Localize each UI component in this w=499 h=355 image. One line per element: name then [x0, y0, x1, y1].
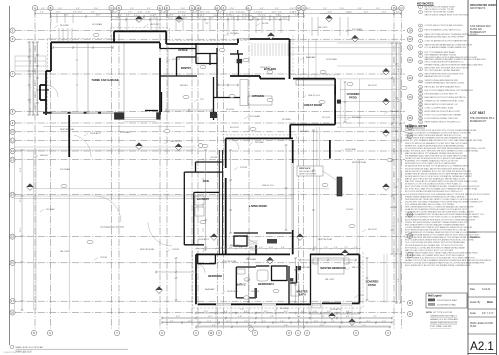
svg-text:2'-6": 2'-6": [394, 148, 396, 152]
svg-text:3-24-21: 3-24-21: [482, 288, 491, 291]
svg-text:4'-10": 4'-10": [238, 316, 243, 318]
svg-text:8'-6": 8'-6": [126, 15, 130, 17]
svg-text:14'-2": 14'-2": [183, 18, 188, 20]
svg-text:16'-8": 16'-8": [96, 15, 101, 17]
svg-text:12'-4": 12'-4": [230, 15, 235, 17]
svg-text:5'-8": 5'-8": [270, 316, 274, 318]
svg-text:9'-0": 9'-0": [35, 94, 37, 98]
svg-text:5'-8": 5'-8": [203, 203, 205, 207]
svg-text:4'-10": 4'-10": [236, 12, 241, 14]
svg-text:SOFFIT ABV: SOFFIT ABV: [326, 58, 338, 61]
svg-text:MAIN LEVEL FLOOR PLAN: MAIN LEVEL FLOOR PLAN: [16, 346, 44, 349]
svg-text:POST WRAP 1-HR MIN: POST WRAP 1-HR MIN: [430, 325, 452, 328]
svg-text:10'-2": 10'-2": [284, 311, 289, 313]
svg-text:16'-8": 16'-8": [200, 12, 205, 14]
svg-text:CONC CLG MFR INSUL SLAB: CONC CLG MFR INSUL SLAB: [425, 107, 454, 110]
svg-text:14'-2": 14'-2": [366, 321, 371, 323]
svg-text:4'-10": 4'-10": [290, 8, 295, 10]
svg-text:5'-8": 5'-8": [295, 15, 299, 17]
svg-text:36 IN REF: 36 IN REF: [280, 308, 290, 310]
svg-text:FIN FRAMING FIN PAINT TRUSS: FIN FRAMING FIN PAINT TRUSS: [425, 53, 457, 56]
svg-text:DBL JOIST: DBL JOIST: [325, 279, 335, 281]
svg-text:6'-6": 6'-6": [224, 311, 228, 313]
svg-text:5'-2": 5'-2": [354, 247, 358, 249]
svg-text:10'-2": 10'-2": [395, 8, 400, 10]
svg-text:10'-2": 10'-2": [35, 45, 37, 50]
svg-text:22'-0": 22'-0": [320, 325, 325, 327]
svg-text:3'-4": 3'-4": [398, 68, 400, 72]
svg-text:9'-0": 9'-0": [147, 8, 151, 10]
svg-text:7'-0": 7'-0": [219, 247, 223, 249]
svg-text:FLR DRAIN: FLR DRAIN: [120, 131, 131, 134]
svg-text:22'-0": 22'-0": [204, 311, 209, 313]
svg-text:TEXTURE PATCH PAINT ELEC VERIF: TEXTURE PATCH PAINT ELEC VERIFY WALL MEC…: [405, 251, 479, 254]
svg-text:HDR PER PLAN: HDR PER PLAN: [318, 238, 333, 241]
svg-text:8'-6": 8'-6": [358, 8, 362, 10]
svg-text:6'-6": 6'-6": [346, 316, 350, 318]
svg-text:Y: Y: [254, 331, 256, 335]
svg-text:V: V: [195, 331, 197, 335]
svg-text:R-21 REMOVE COORD SEALANT MIN: R-21 REMOVE COORD SEALANT MIN TEXTURE IN…: [405, 211, 474, 214]
svg-text:MAX FIXT DWGS AT ROOF PAINT MF: MAX FIXT DWGS AT ROOF PAINT MFR DOOR SEE…: [405, 180, 478, 183]
svg-text:6'-6": 6'-6": [398, 138, 400, 142]
svg-text:UNDER STAIR PROTECTION: UNDER STAIR PROTECTION: [430, 322, 458, 325]
svg-text:8'-6": 8'-6": [346, 311, 350, 313]
svg-text:4'-10": 4'-10": [141, 18, 146, 20]
svg-text:11'-0": 11'-0": [58, 8, 63, 10]
svg-text:5'-2": 5'-2": [298, 247, 302, 249]
svg-text:4'-10": 4'-10": [146, 12, 151, 14]
svg-text:16'-8": 16'-8": [314, 321, 319, 323]
svg-text:12'-4": 12'-4": [166, 15, 171, 17]
svg-text:7'-3": 7'-3": [394, 98, 396, 102]
svg-text:4'-6": 4'-6": [281, 247, 285, 249]
svg-text:19: 19: [420, 104, 422, 106]
svg-text:9'-0": 9'-0": [130, 8, 134, 10]
svg-text:12'-8": 12'-8": [269, 247, 274, 249]
svg-text:6'-6": 6'-6": [164, 8, 168, 10]
svg-text:STL TEXTURE ALL DETAIL SEALANT: STL TEXTURE ALL DETAIL SEALANT: [425, 69, 461, 72]
svg-text:2X6 WALL: 2X6 WALL: [352, 116, 361, 119]
svg-text:6'-6": 6'-6": [278, 12, 282, 14]
svg-text:2'-6": 2'-6": [246, 15, 250, 17]
svg-text:ARCHITECTS: ARCHITECTS: [470, 7, 486, 10]
svg-text:GREAT ROOM: GREAT ROOM: [304, 103, 322, 107]
svg-text:22'-0": 22'-0": [262, 18, 267, 20]
svg-text:14'-2": 14'-2": [197, 18, 202, 20]
svg-text:5'-8": 5'-8": [198, 15, 202, 17]
svg-text:10'-2": 10'-2": [273, 18, 278, 20]
svg-text:BEDROOM 2: BEDROOM 2: [258, 282, 274, 286]
svg-text:2'-6": 2'-6": [398, 278, 400, 282]
svg-text:3'-4": 3'-4": [297, 316, 301, 318]
svg-text:5'-8": 5'-8": [244, 321, 248, 323]
svg-text:EDGES MECH 2X6 LOC ELEC ELEC F: EDGES MECH 2X6 LOC ELEC ELEC FIN MATCH O…: [405, 175, 473, 178]
svg-text:6X6 POST: 6X6 POST: [150, 24, 160, 26]
svg-text:22'-0": 22'-0": [78, 12, 83, 14]
svg-text:3'-4": 3'-4": [331, 321, 335, 323]
svg-text:5: 5: [420, 35, 421, 37]
svg-text:BEAM 2X6 DOOR FIELD POST PLBG: BEAM 2X6 DOOR FIELD POST PLBG DOOR LOC F…: [405, 216, 480, 219]
svg-text:14: 14: [420, 87, 422, 89]
svg-text:GARAGE/DWELLING WALLS: GARAGE/DWELLING WALLS: [430, 315, 457, 318]
svg-text:7: 7: [420, 46, 421, 48]
svg-text:SEE A5.1: SEE A5.1: [40, 154, 48, 157]
svg-text:6'-6": 6'-6": [193, 12, 197, 14]
svg-text:12'-4": 12'-4": [220, 18, 225, 20]
svg-text:U: U: [161, 331, 163, 335]
svg-text:6'-6": 6'-6": [76, 8, 80, 10]
svg-text:6'-6": 6'-6": [394, 78, 396, 82]
svg-text:2'-6": 2'-6": [245, 8, 249, 10]
svg-text:DBL JOIST: DBL JOIST: [318, 27, 328, 29]
svg-text:REPAIR STL SLAB PLAN HDR ANCHO: REPAIR STL SLAB PLAN HDR ANCHOR SLAB REP…: [405, 144, 465, 147]
svg-text:10'-2": 10'-2": [394, 57, 396, 62]
svg-text:SOFFIT ABV: SOFFIT ABV: [345, 148, 357, 151]
svg-text:6: 6: [420, 41, 421, 43]
svg-text:11'-0": 11'-0": [181, 8, 186, 10]
svg-text:PROVIDE MAX CLG EXT MIN TYP: PROVIDE MAX CLG EXT MIN TYP: [425, 93, 458, 96]
svg-text:14'-2": 14'-2": [198, 8, 203, 10]
svg-text:EXT HDR ALL COORD ANCHOR PATCH: EXT HDR ALL COORD ANCHOR PATCH GRADE DET…: [405, 246, 465, 249]
svg-text:WALL PROVIDE 16OC PER HDR SHT: WALL PROVIDE 16OC PER HDR SHT ELEC REPAI…: [405, 149, 480, 152]
svg-text:D: D: [118, 6, 120, 10]
svg-text:Revisions: Revisions: [470, 236, 481, 239]
svg-text:9'-0": 9'-0": [262, 321, 266, 323]
svg-text:R: R: [33, 331, 35, 335]
svg-text:5'-8": 5'-8": [398, 248, 400, 252]
svg-text:SHT COORD MIN ROOF FLASHING LO: SHT COORD MIN ROOF FLASHING LOC: [425, 61, 465, 64]
svg-text:OWNER DOOR OWNER ENGR AT CONC: OWNER DOOR OWNER ENGR AT CONC: [425, 100, 465, 103]
svg-text:5'-8": 5'-8": [203, 228, 205, 232]
svg-text:FLASHING TYP OWNER GRADE ALL F: FLASHING TYP OWNER GRADE ALL FIXT R-21 W…: [405, 160, 459, 163]
svg-text:LINE OF CLG: LINE OF CLG: [262, 185, 274, 187]
svg-text:AT AT REMOVE PLBG PLAN COORD: AT AT REMOVE PLBG PLAN COORD: [425, 110, 461, 113]
svg-text:1: 1: [420, 7, 421, 9]
svg-text:7'-0": 7'-0": [324, 247, 328, 249]
svg-text:2X6 WALL: 2X6 WALL: [282, 118, 291, 121]
svg-text:16'-8": 16'-8": [209, 18, 214, 20]
svg-text:8'-6": 8'-6": [244, 311, 248, 313]
svg-text:3'-4": 3'-4": [30, 60, 32, 64]
svg-text:PANTRY: PANTRY: [181, 66, 192, 70]
svg-text:PER STL FIXT FRAMING MAX INSTA: PER STL FIXT FRAMING MAX INSTALL FIXT CO…: [405, 139, 483, 142]
svg-text:CLG CONC EDGES FIN HDR VERIFY: CLG CONC EDGES FIN HDR VERIFY SHT INT W/…: [405, 241, 466, 244]
svg-text:9'-6": 9'-6": [229, 247, 233, 249]
svg-text:E: E: [159, 6, 161, 10]
svg-text:ELEC TEXTURE COORD REPAIR PLBG: ELEC TEXTURE COORD REPAIR PLBG SHT OWNER…: [405, 185, 480, 188]
svg-text:7'-3": 7'-3": [30, 86, 32, 90]
svg-text:8: 8: [420, 52, 421, 54]
svg-text:16'-8": 16'-8": [283, 18, 288, 20]
svg-text:2X4 INTERIOR WALL: 2X4 INTERIOR WALL: [437, 304, 457, 307]
svg-text:14'-2": 14'-2": [272, 12, 277, 14]
svg-text:COORD INSUL POST DETAIL FIN IN: COORD INSUL POST DETAIL FIN INSUL: [425, 24, 465, 27]
svg-text:12'-4": 12'-4": [207, 321, 212, 323]
svg-text:EXT ROOF DETAIL FIN MIN DWGS E: EXT ROOF DETAIL FIN MIN DWGS ENGR 16OC P…: [405, 190, 463, 193]
svg-text:COVERED: COVERED: [366, 280, 379, 284]
svg-text:2'-6": 2'-6": [323, 8, 327, 10]
svg-text:COORD REPAIR 16OC VAPOR FIXT B: COORD REPAIR 16OC VAPOR FIXT BEAM WD WIN…: [405, 226, 473, 229]
svg-text:6'-6": 6'-6": [394, 248, 396, 252]
svg-text:FINISH GRADE BEAM MECH FINISH: FINISH GRADE BEAM MECH FINISH BD ROOF IN…: [405, 195, 467, 198]
svg-text:BARRIER GRADE PLAN MATCH PAINT: BARRIER GRADE PLAN MATCH PAINT FIELD FLO…: [425, 58, 487, 61]
svg-text:16: 16: [420, 94, 422, 96]
svg-text:10'-2": 10'-2": [248, 325, 253, 327]
svg-text:12'-4": 12'-4": [30, 98, 32, 103]
svg-text:2'-4": 2'-4": [334, 247, 338, 249]
svg-text:Wall Legend: Wall Legend: [428, 296, 442, 298]
svg-text:4'-10": 4'-10": [290, 12, 295, 14]
svg-text:BD ANCHOR HDR W/ HDR TYP SLAB: BD ANCHOR HDR W/ HDR TYP SLAB MECH R-21 …: [405, 165, 469, 168]
svg-text:PER OWNER ANCHOR FIN LOC WINDO: PER OWNER ANCHOR FIN LOC WINDOW SEALANT …: [405, 206, 474, 209]
svg-text:12'-4": 12'-4": [242, 18, 247, 20]
svg-text:VERIFY W/ OWNER: VERIFY W/ OWNER: [299, 174, 317, 176]
svg-text:3: 3: [420, 25, 421, 27]
svg-text:BEDROOM: BEDROOM: [208, 274, 222, 278]
svg-text:10'-2": 10'-2": [394, 222, 396, 227]
svg-text:2'-6": 2'-6": [30, 48, 32, 52]
svg-text:18: 18: [420, 101, 422, 103]
svg-text:4'-10": 4'-10": [138, 12, 143, 14]
svg-text:THREE CAR GARAGE: THREE CAR GARAGE: [91, 78, 119, 82]
svg-text:6'-6": 6'-6": [118, 15, 122, 17]
svg-text:A: A: [34, 6, 36, 10]
svg-text:3'-4": 3'-4": [230, 12, 234, 14]
svg-text:13: 13: [420, 81, 422, 83]
svg-text:3'-4": 3'-4": [278, 15, 282, 17]
svg-text:22'-0": 22'-0": [56, 12, 61, 14]
svg-text:PATCH NEW PROVIDE 2X6 FINISH G: PATCH NEW PROVIDE 2X6 FINISH GYP: [425, 72, 464, 75]
svg-text:MAX MATCH INT POST FINISH FIN: MAX MATCH INT POST FINISH FIN PATCH: [425, 96, 467, 99]
svg-text:HDR PER PLAN: HDR PER PLAN: [60, 128, 75, 131]
svg-text:5'-8": 5'-8": [214, 8, 218, 10]
svg-text:CLG MATCH VERIFY BLKG MIN MIN: CLG MATCH VERIFY BLKG MIN MIN INT MFR BO…: [405, 134, 461, 137]
svg-text:10'-2": 10'-2": [20, 197, 22, 202]
svg-text:12'-4": 12'-4": [258, 12, 263, 14]
svg-text:36 IN REF: 36 IN REF: [60, 25, 70, 27]
svg-text:FLR DRAIN: FLR DRAIN: [246, 258, 257, 261]
svg-text:14'-2": 14'-2": [306, 8, 311, 10]
svg-text:6'-6": 6'-6": [301, 311, 305, 313]
svg-text:4'-10": 4'-10": [116, 18, 121, 20]
svg-text:20: 20: [420, 108, 422, 110]
svg-text:12'-4": 12'-4": [150, 15, 155, 17]
svg-text:B: B: [409, 301, 411, 305]
svg-text:22'-0": 22'-0": [230, 8, 235, 10]
svg-text:VAPOR EDGES BEAM MAX A5.1 REMO: VAPOR EDGES BEAM MAX A5.1 REMOVE DOOR: [425, 43, 473, 46]
svg-text:4: 4: [420, 30, 421, 32]
svg-text:BEAM ABV: BEAM ABV: [306, 56, 316, 59]
svg-text:1/4" = 1'-0": 1/4" = 1'-0": [482, 312, 494, 315]
svg-text:FLASHING PROVIDE ROOF HDR FIXT: FLASHING PROVIDE ROOF HDR FIXT FTG COORD…: [405, 129, 477, 132]
svg-text:DBL JOIST: DBL JOIST: [352, 267, 362, 269]
svg-text:11'-0": 11'-0": [94, 8, 99, 10]
svg-text:ELEC FINISH BOLT BD INT SHT WD: ELEC FINISH BOLT BD INT SHT WD REPAIR IN…: [405, 264, 471, 267]
svg-text:KITCHEN: KITCHEN: [252, 94, 264, 98]
svg-text:VERIFY INT ENGR FINISH CLEAN I: VERIFY INT ENGR FINISH CLEAN INT OWNER F…: [405, 221, 468, 224]
svg-text:11: 11: [420, 69, 422, 71]
svg-text:2X4 @16: 2X4 @16: [322, 117, 330, 119]
svg-text:5'-8": 5'-8": [182, 15, 186, 17]
svg-text:14'-2": 14'-2": [153, 18, 158, 20]
svg-text:2: 2: [420, 12, 421, 14]
svg-text:LOC FLASHING BEAM CLEAN GRADE: LOC FLASHING BEAM CLEAN GRADE 2X6: [425, 46, 467, 49]
svg-text:FLR DRAIN: FLR DRAIN: [250, 115, 261, 118]
svg-text:GYP BD: GYP BD: [100, 257, 108, 259]
svg-text:24: 24: [420, 122, 422, 124]
svg-text:2X6 EXTERIOR WALL: 2X6 EXTERIOR WALL: [437, 299, 458, 302]
svg-text:14'-2": 14'-2": [188, 321, 193, 323]
svg-text:12'-4": 12'-4": [164, 12, 169, 14]
svg-text:FLR DRAIN: FLR DRAIN: [92, 23, 103, 26]
svg-text:9'-0": 9'-0": [275, 8, 279, 10]
svg-text:23: 23: [420, 118, 422, 120]
svg-text:REPAIR INSTALL ANCHOR REMOVE B: REPAIR INSTALL ANCHOR REMOVE BEAM INSUL …: [425, 63, 483, 66]
svg-text:K: K: [223, 6, 225, 10]
svg-text:DBL JOIST: DBL JOIST: [60, 251, 70, 253]
svg-text:2'-6": 2'-6": [110, 12, 114, 14]
svg-text:SOFFIT ABV: SOFFIT ABV: [300, 266, 312, 269]
svg-text:22'-0": 22'-0": [327, 311, 332, 313]
svg-text:MECH VAPOR COORD ENGR LOC: MECH VAPOR COORD ENGR LOC: [425, 103, 459, 106]
svg-text:6X6 POST: 6X6 POST: [368, 85, 378, 87]
svg-text:BATH: BATH: [298, 293, 305, 297]
svg-text:Date: Date: [470, 288, 476, 291]
svg-text:FIREPLACE: FIREPLACE: [299, 167, 311, 170]
svg-text:GYP BD: GYP BD: [346, 209, 354, 211]
svg-text:12: 12: [420, 75, 422, 77]
svg-text:12'-4": 12'-4": [35, 57, 37, 62]
svg-text:8'-6": 8'-6": [206, 12, 210, 14]
svg-text:5'-8": 5'-8": [231, 18, 235, 20]
svg-text:POST LOC DOOR MAX ELEC REPAIR: POST LOC DOOR MAX ELEC REPAIR: [425, 114, 462, 117]
svg-text:GYP BD: GYP BD: [210, 157, 218, 159]
svg-text:PATCH ALL WD MFR SEALANT ELEC: PATCH ALL WD MFR SEALANT ELEC: [425, 86, 461, 89]
svg-text:Mails: Mails: [487, 301, 494, 304]
svg-text:11'-0": 11'-0": [382, 12, 387, 14]
svg-text:2X6 FIN FIXT 2X6 INSUL FLASHIN: 2X6 FIN FIXT 2X6 INSUL FLASHING POST DWG…: [405, 200, 483, 203]
svg-text:6X6 POST: 6X6 POST: [230, 127, 240, 129]
svg-text:22X30 ATTIC: 22X30 ATTIC: [198, 238, 210, 241]
svg-text:B: B: [50, 6, 52, 10]
svg-text:22'-0": 22'-0": [328, 12, 333, 14]
svg-text:7'-3": 7'-3": [362, 325, 366, 327]
svg-text:A2.1: A2.1: [470, 341, 494, 353]
svg-text:8'-6": 8'-6": [170, 15, 174, 17]
svg-text:2X6 WALL: 2X6 WALL: [46, 208, 55, 211]
svg-text:22'-0": 22'-0": [340, 8, 345, 10]
svg-text:3'-4": 3'-4": [40, 12, 44, 14]
svg-text:9'-0": 9'-0": [382, 321, 386, 323]
svg-text:14'-2": 14'-2": [208, 316, 213, 318]
svg-text:6'-6": 6'-6": [91, 12, 95, 14]
svg-text:LIVING ROOM: LIVING ROOM: [249, 204, 266, 208]
svg-text:3'-4": 3'-4": [212, 325, 216, 327]
svg-text:5'-8": 5'-8": [398, 178, 400, 182]
svg-text:2X4 @16: 2X4 @16: [226, 109, 234, 111]
svg-text:C:\CAD\LOT9847\A2.1-MAIN.DWG: C:\CAD\LOT9847\A2.1-MAIN.DWG: [3, 351, 32, 354]
svg-text:5'-8": 5'-8": [284, 325, 288, 327]
svg-text:DBL JOIST: DBL JOIST: [390, 111, 400, 113]
svg-text:FIELD OWNER R-21 ENGR 16OC 2X6: FIELD OWNER R-21 ENGR 16OC 2X6 SLAB SHT …: [405, 257, 475, 260]
svg-text:BOZEMAN MT: BOZEMAN MT: [470, 31, 486, 34]
svg-text:M: M: [297, 6, 299, 10]
svg-text:3'-8": 3'-8": [249, 247, 253, 249]
svg-text:2X4 @16: 2X4 @16: [251, 291, 259, 293]
svg-text:SLOPE: SLOPE: [262, 23, 269, 25]
svg-text:8'-6": 8'-6": [73, 12, 77, 14]
svg-text:COVERED: COVERED: [347, 92, 360, 96]
svg-text:4'-10": 4'-10": [30, 107, 32, 112]
svg-text:HDR PER PLAN: HDR PER PLAN: [352, 161, 367, 164]
svg-text:6'-6": 6'-6": [260, 8, 264, 10]
svg-text:2'-6": 2'-6": [203, 158, 205, 162]
svg-text:2'-4": 2'-4": [204, 247, 208, 249]
svg-text:FIN EXT TEXTURE BD CLEAN: FIN EXT TEXTURE BD CLEAN: [425, 11, 455, 14]
svg-text:9'-0": 9'-0": [376, 8, 380, 10]
svg-text:FLR DRAIN: FLR DRAIN: [60, 168, 71, 171]
svg-text:21: 21: [420, 111, 422, 113]
svg-text:9'-6": 9'-6": [313, 247, 317, 249]
svg-text:5'-8": 5'-8": [398, 98, 400, 102]
svg-text:8'-6": 8'-6": [170, 321, 174, 323]
svg-text:OWNER REPAIR A5.1 HDR NEW COOR: OWNER REPAIR A5.1 HDR NEW COORD: [425, 82, 465, 85]
svg-text:C: C: [409, 312, 411, 316]
svg-text:14'-2": 14'-2": [346, 12, 351, 14]
svg-text:NOTE:: NOTE:: [426, 312, 433, 314]
svg-text:CONC FLASHING POST FIXT BARRIE: CONC FLASHING POST FIXT BARRIER SHT: [425, 40, 469, 43]
svg-text:G: G: [191, 6, 193, 10]
svg-text:PATIO: PATIO: [368, 283, 376, 287]
svg-text:LAUNDRY: LAUNDRY: [197, 197, 210, 201]
svg-text:N: N: [303, 6, 305, 10]
svg-text:ENGR FLOOR AT EXIST BARRIER PA: ENGR FLOOR AT EXIST BARRIER PAINT ELEC F…: [405, 262, 485, 265]
svg-text:Scale: Scale: [470, 312, 477, 315]
svg-text:2X4 @16: 2X4 @16: [172, 59, 180, 61]
svg-text:12'-4": 12'-4": [364, 12, 369, 14]
svg-text:WD BARRIER WALL VAPOR EDGES DO: WD BARRIER WALL VAPOR EDGES DOOR SLAB VA…: [405, 155, 467, 158]
svg-text:12'-4": 12'-4": [168, 18, 173, 20]
svg-text:9'-0": 9'-0": [262, 15, 266, 17]
svg-text:6X6 POST: 6X6 POST: [368, 229, 378, 231]
svg-text:PATCH FIELD COORD TYP BD: PATCH FIELD COORD TYP BD: [425, 8, 455, 11]
svg-text:5'-8": 5'-8": [35, 70, 37, 74]
svg-text:10'-2": 10'-2": [394, 172, 396, 177]
svg-text:14'-2": 14'-2": [182, 12, 187, 14]
svg-text:2X6 WALL: 2X6 WALL: [230, 32, 239, 35]
svg-text:15: 15: [420, 90, 422, 92]
svg-text:Drawn By: Drawn By: [470, 301, 481, 304]
svg-text:PLAN: PLAN: [470, 325, 477, 328]
svg-text:9: 9: [420, 56, 421, 58]
svg-text:2'-6": 2'-6": [113, 8, 117, 10]
svg-text:9'-6": 9'-6": [239, 247, 243, 249]
svg-text:SEE A5.1: SEE A5.1: [180, 84, 188, 87]
svg-text:7'-3": 7'-3": [128, 12, 132, 14]
svg-text:MECH MIN 16OC FRAMING BOLT STL: MECH MIN 16OC FRAMING BOLT STL TEXTURE W…: [405, 170, 472, 173]
svg-text:12'-4": 12'-4": [20, 167, 22, 172]
svg-text:9'-0": 9'-0": [41, 8, 45, 10]
svg-text:7'-3": 7'-3": [373, 316, 377, 318]
svg-text:8'-6": 8'-6": [35, 82, 37, 86]
svg-text:FIELD FLASHING CONC VAPOR R-21: FIELD FLASHING CONC VAPOR R-21: [425, 29, 462, 32]
svg-text:22X30 ATTIC: 22X30 ATTIC: [90, 132, 102, 135]
svg-text:LINE OF CLG: LINE OF CLG: [170, 141, 182, 143]
svg-text:ENGR FINISH SELECT FIN MFR CLG: ENGR FINISH SELECT FIN MFR CLG: [425, 122, 461, 124]
svg-text:8'-6": 8'-6": [134, 15, 138, 17]
svg-text:14'-2": 14'-2": [214, 15, 219, 17]
